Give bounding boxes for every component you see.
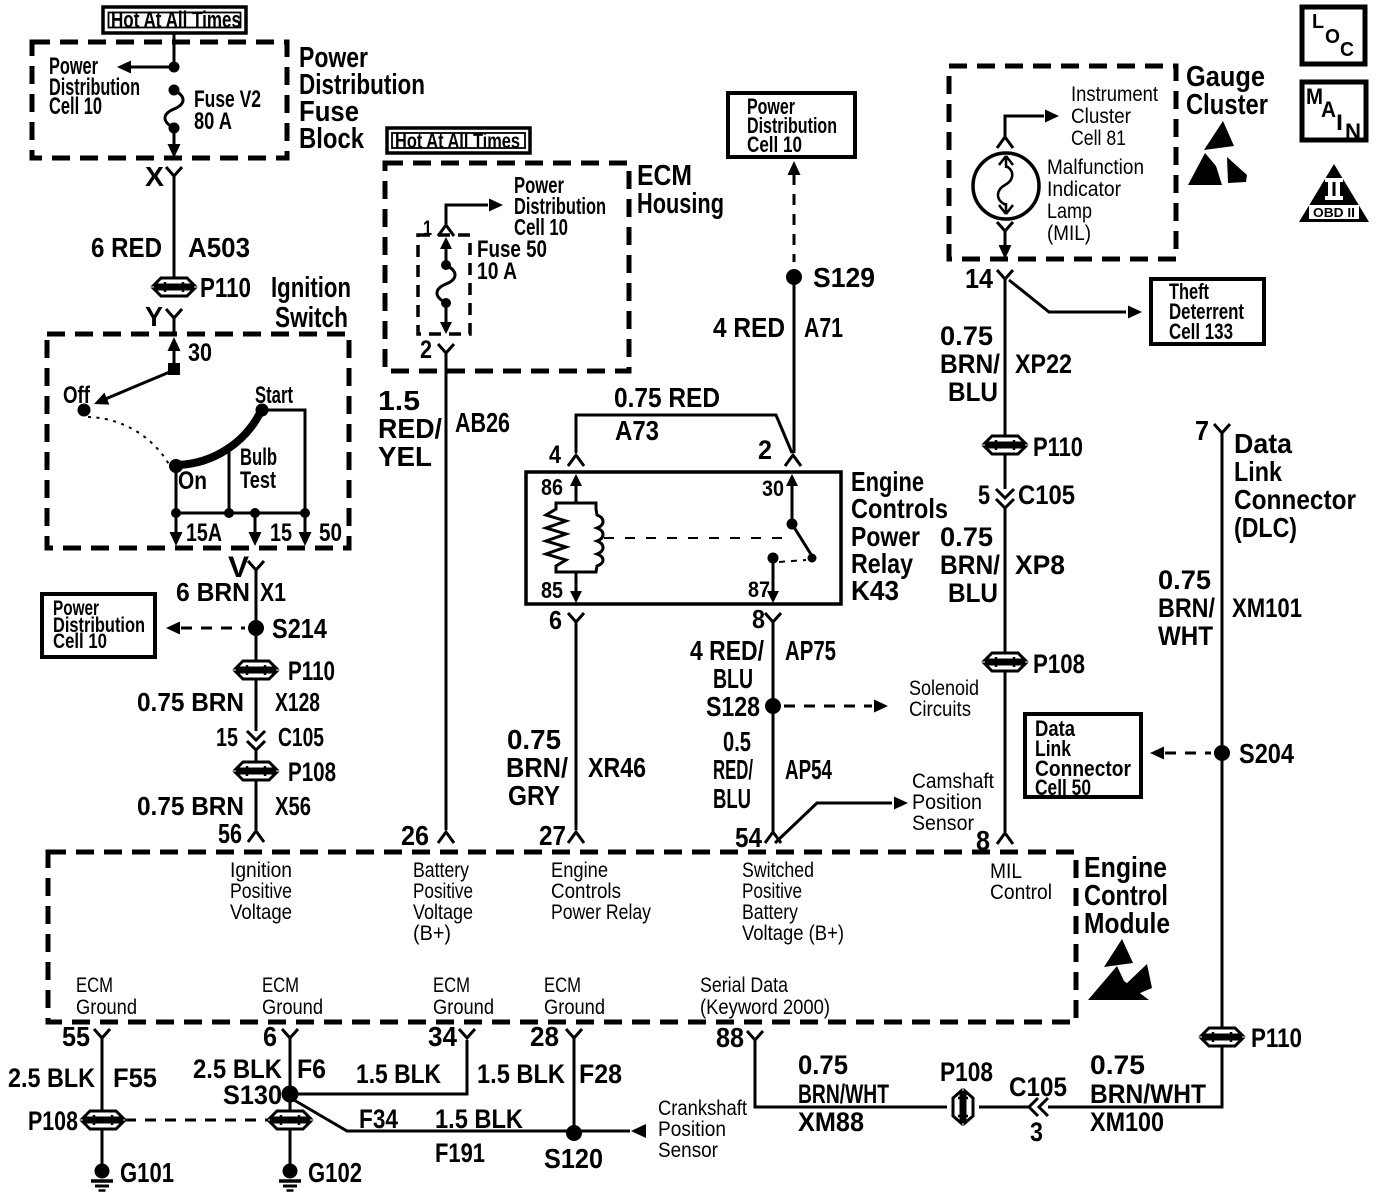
svg-text:BRN/WHT: BRN/WHT (1090, 1079, 1206, 1109)
svg-text:Ground: Ground (76, 996, 137, 1019)
svg-text:O: O (1325, 26, 1340, 48)
svg-text:XP8: XP8 (1015, 550, 1065, 580)
svg-text:Malfunction: Malfunction (1047, 156, 1144, 179)
svg-text:AP54: AP54 (785, 754, 832, 785)
node: contact 87 (768, 553, 779, 564)
wire: P110 to C105 (1004, 454, 1007, 489)
svg-text:Data: Data (1234, 428, 1292, 459)
Gauge Cluster dashed outline (949, 66, 1176, 259)
ECM Housing dashed outline (385, 163, 629, 371)
node: armature tip (808, 554, 817, 563)
svg-text:54: 54 (735, 822, 762, 853)
svg-text:Connector: Connector (1234, 484, 1356, 515)
connector P110 (X128) (236, 661, 276, 679)
svg-text:BRN/: BRN/ (506, 752, 568, 783)
svg-text:ECM: ECM (544, 974, 581, 997)
svg-text:55: 55 (62, 1021, 90, 1052)
label: pin 26 Battery Positive Voltage (B+) (413, 859, 473, 945)
connector P110 (serial data) (1202, 1028, 1242, 1046)
svg-text:6: 6 (549, 605, 562, 635)
wire 4 RED A71 (793, 270, 796, 453)
pin 7 connector (DLC) (1195, 415, 1230, 446)
pin 4 connector (relay) (549, 441, 584, 469)
fuse 50 dashed outline (418, 235, 470, 334)
svg-text:BLU: BLU (713, 663, 753, 694)
svg-text:(B+): (B+) (413, 922, 451, 945)
svg-text:Positive: Positive (413, 880, 473, 903)
label: 4 RED/BLU AP75 (690, 635, 836, 694)
svg-text:OBD II: OBD II (1313, 205, 1355, 220)
svg-text:Hot At All Times: Hot At All Times (395, 130, 520, 153)
svg-text:BRN/: BRN/ (1158, 593, 1215, 623)
wire 0.75 BRN/WHT XM88 (755, 1040, 947, 1107)
svg-text:50: 50 (319, 519, 342, 547)
label: 2.5 BLK F6 (193, 1054, 326, 1084)
wire: S214 to P110 (255, 636, 258, 661)
svg-text:C: C (1340, 39, 1354, 61)
label: Power Distribution Cell 10 (ECM housing) (514, 172, 606, 240)
svg-text:I: I (1336, 110, 1343, 135)
svg-text:L: L (1312, 11, 1324, 33)
splice S128 (765, 698, 781, 714)
svg-text:A71: A71 (804, 312, 843, 343)
label: 0.75 BRN/WHT XM100 (1090, 1050, 1206, 1137)
label: Data Link Connector (DLC) (1234, 428, 1356, 543)
pin Y connector (145, 301, 182, 334)
svg-text:Solenoid: Solenoid (909, 677, 979, 700)
LOC reference box (1302, 7, 1365, 64)
switch pivot (168, 363, 180, 375)
svg-text:S120: S120 (544, 1143, 603, 1174)
svg-text:XM100: XM100 (1090, 1107, 1164, 1137)
svg-text:6 BRN: 6 BRN (176, 577, 250, 607)
svg-text:Test: Test (240, 467, 276, 494)
dashed link P108 to G102 branch (125, 1119, 268, 1122)
svg-text:BRN/: BRN/ (940, 550, 1000, 580)
pin 26 connector (401, 820, 454, 851)
label: ECM Housing (637, 160, 724, 220)
svg-text:10 A: 10 A (477, 258, 517, 285)
pin 30 arrow (168, 337, 181, 364)
wire 2.5 BLK F6 (289, 1038, 292, 1087)
relay coil K43 (546, 503, 603, 572)
splice S120 (566, 1125, 582, 1141)
svg-text:4: 4 (549, 441, 561, 469)
pin 6 connector (relay) (549, 605, 584, 635)
label: 2.5 BLK F55 (8, 1063, 157, 1093)
label: 0.75 BRN/BLU XP8 (940, 522, 1065, 608)
svg-text:Voltage: Voltage (230, 901, 292, 924)
svg-text:RED/: RED/ (378, 413, 442, 444)
svg-text:Ignition: Ignition (230, 859, 292, 882)
svg-text:0.75: 0.75 (1090, 1050, 1145, 1080)
label box: Hot At All Times (fuse block) (103, 7, 246, 34)
svg-text:Cluster: Cluster (1186, 89, 1268, 121)
wire: fuse V2 to fuse block edge (173, 131, 176, 148)
svg-text:30: 30 (762, 476, 784, 501)
svg-text:Position: Position (912, 791, 982, 814)
svg-text:Indicator: Indicator (1047, 178, 1121, 201)
ESD symbol (gauge cluster) (1188, 121, 1247, 185)
Engine Controls Power Relay K43 outline (526, 472, 841, 604)
svg-text:6: 6 (263, 1021, 277, 1052)
node: Start position (256, 404, 269, 417)
label: 0.75 BRN/BLU XP22 (940, 321, 1072, 407)
node: relay armature pivot (787, 519, 798, 530)
svg-text:5: 5 (978, 480, 990, 510)
svg-text:K43: K43 (851, 575, 899, 606)
dashed tap to Power Distribution Cell 10 (166, 622, 245, 635)
label: 0.75 RED A73 (614, 382, 720, 446)
svg-text:6 RED: 6 RED (91, 232, 162, 263)
label: 0.5 RED/BLU AP54 (713, 726, 832, 814)
label: C105 3 (1009, 1072, 1067, 1147)
pin 88 connector (716, 1022, 763, 1053)
svg-text:Positive: Positive (742, 880, 802, 903)
dashed tap to Data Link Connector Cell 50 (1150, 747, 1211, 760)
svg-text:MIL: MIL (990, 860, 1022, 883)
svg-text:BLU: BLU (713, 783, 751, 814)
connector P108 (G101) (83, 1111, 123, 1129)
svg-text:P110: P110 (1251, 1023, 1302, 1053)
svg-text:P108: P108 (1033, 649, 1085, 679)
svg-text:80 A: 80 A (194, 108, 232, 135)
label: 6 BRN X1 (176, 577, 286, 607)
node: Off position (78, 404, 91, 417)
wire: connector to G102 (289, 1129, 292, 1164)
label box: Power Distribution Cell 10 (S129 feed) (728, 93, 855, 157)
svg-text:Serial Data: Serial Data (700, 974, 788, 997)
svg-text:S130: S130 (223, 1080, 282, 1110)
svg-text:1.5 BLK: 1.5 BLK (477, 1059, 565, 1089)
svg-text:WHT: WHT (1158, 621, 1213, 651)
label: 1.5 BLK F34 (356, 1059, 441, 1134)
svg-text:Cluster: Cluster (1071, 105, 1131, 128)
arrow to Power Distribution Cell 10 (117, 61, 131, 74)
Power Distribution Fuse Block dashed outline (32, 42, 287, 158)
svg-text:YEL: YEL (378, 441, 432, 472)
svg-text:P108: P108 (940, 1057, 993, 1087)
svg-text:Module: Module (1084, 908, 1170, 940)
svg-text:1.5: 1.5 (378, 385, 420, 416)
svg-text:Switch: Switch (275, 302, 348, 334)
dashed tap to solenoid circuits (784, 700, 888, 713)
svg-text:Camshaft: Camshaft (912, 770, 994, 793)
svg-text:28: 28 (530, 1021, 559, 1052)
label: Malfunction Indicator Lamp (MIL) (1047, 156, 1144, 245)
wire 1.5 RED/YEL AB26 (445, 353, 448, 830)
connector (G102 branch) (270, 1111, 310, 1129)
splice S129 (786, 269, 802, 285)
wire: C105 to P108 (979, 1106, 1029, 1109)
wire 0.75 BRN/BLU XP22 (1004, 279, 1007, 436)
label: ECM Ground (pin 6) (262, 974, 323, 1019)
splice S214 (248, 620, 264, 636)
terminal 15A arrow (170, 513, 183, 546)
wire: MIL to instrument cluster tap (1005, 116, 1044, 137)
node: bus junction bulb test (224, 508, 234, 518)
wire 0.75 BRN/WHT XM100 (1048, 1046, 1222, 1107)
svg-text:15A: 15A (186, 519, 222, 547)
svg-text:0.5: 0.5 (723, 726, 751, 757)
label: 1.5 BLK F28 (477, 1059, 622, 1089)
wire 4 RED/BLU AP75 (772, 622, 775, 831)
svg-text:ECM: ECM (76, 974, 113, 997)
connector P108 (serial data) (953, 1091, 973, 1123)
svg-text:A503: A503 (188, 232, 250, 263)
svg-text:S204: S204 (1239, 738, 1294, 769)
svg-text:XR46: XR46 (588, 752, 646, 783)
node: bus junction 15A (171, 508, 181, 518)
svg-text:C105: C105 (1018, 480, 1075, 510)
wire: bulb test branch (228, 444, 231, 513)
svg-text:Instrument: Instrument (1071, 83, 1158, 106)
pin 87 terminal arrow (767, 562, 779, 603)
label: 6 RED A503 (91, 232, 250, 263)
svg-text:Cell 81: Cell 81 (1071, 127, 1126, 150)
svg-text:BLU: BLU (948, 377, 998, 407)
wire 0.75 BRN X128 (255, 679, 258, 731)
label box: Data Link Connector Cell 50 (1025, 714, 1141, 800)
node: On position (169, 459, 183, 473)
pin 55 connector (62, 1021, 110, 1052)
svg-text:C105: C105 (278, 722, 324, 752)
label: pin 54 Switched Positive Battery Voltage (B+) (742, 859, 844, 945)
pin 30 terminal arrow (786, 474, 798, 522)
svg-text:Voltage (B+): Voltage (B+) (742, 922, 844, 945)
svg-text:8: 8 (752, 604, 765, 634)
svg-text:4 RED/: 4 RED/ (690, 635, 764, 666)
svg-text:26: 26 (401, 820, 429, 851)
label: Ignition Switch (271, 272, 351, 334)
MAIN reference box (1302, 82, 1366, 144)
svg-text:F55: F55 (113, 1063, 157, 1093)
svg-text:AP75: AP75 (785, 635, 836, 666)
pin 14 connector (965, 263, 1013, 294)
svg-text:XM101: XM101 (1232, 593, 1302, 623)
label: ECM Ground (pin 55) (76, 974, 137, 1019)
svg-text:Cell 10: Cell 10 (53, 630, 107, 653)
terminal 15 arrow (249, 513, 262, 546)
OBD II symbol (1299, 164, 1369, 222)
label: 1.5 RED/YEL AB26 (378, 385, 510, 472)
switch wiper arrow to Off (94, 371, 172, 405)
wire tap to theft deterrent (1009, 280, 1126, 312)
svg-text:2.5 BLK: 2.5 BLK (8, 1063, 95, 1093)
ground G101 (91, 1164, 113, 1191)
svg-text:0.75 BRN: 0.75 BRN (137, 791, 244, 821)
svg-text:Ground: Ground (544, 996, 605, 1019)
svg-text:Battery: Battery (413, 859, 469, 882)
svg-text:G102: G102 (308, 1157, 362, 1188)
svg-text:88: 88 (716, 1022, 744, 1053)
pin 85 terminal arrow (570, 572, 582, 603)
svg-text:P108: P108 (288, 757, 336, 787)
svg-text:30: 30 (188, 339, 212, 367)
svg-text:Cell 10: Cell 10 (747, 132, 802, 157)
label: Gauge Cluster (1186, 61, 1268, 121)
svg-text:GRY: GRY (508, 780, 560, 811)
arrow to Instrument Cluster Cell 81 (1045, 110, 1059, 123)
wire: P108 to pin 8 (1004, 671, 1007, 832)
svg-text:34: 34 (428, 1021, 457, 1052)
pin 8 connector (MIL control) (976, 825, 1013, 856)
svg-text:Ground: Ground (262, 996, 323, 1019)
wire 6 BRN X1 (255, 570, 258, 620)
svg-text:4 RED: 4 RED (713, 312, 785, 343)
svg-text:Cell 50: Cell 50 (1035, 775, 1091, 800)
label: 0.75 BRN/WHT XM101 (1158, 565, 1302, 651)
svg-text:0.75 BRN: 0.75 BRN (137, 687, 244, 717)
label box: Theft Deterrent Cell 133 (1151, 279, 1264, 344)
svg-text:Cell 10: Cell 10 (49, 93, 102, 120)
relay actuate dashed link (604, 537, 784, 539)
svg-text:Control: Control (990, 881, 1052, 904)
label: Engine Control Module (1084, 852, 1170, 940)
node: junction at fuse V2 top feed (169, 62, 180, 73)
wire 6 RED A503 (173, 176, 176, 278)
svg-text:Battery: Battery (742, 901, 798, 924)
label: Solenoid Circuits (909, 677, 979, 721)
wire tap to camshaft position sensor (775, 803, 892, 843)
connector P108 (X56) (236, 762, 276, 780)
svg-text:14: 14 (965, 263, 993, 294)
arrow to camshaft position sensor (894, 797, 908, 810)
svg-text:7: 7 (1195, 415, 1209, 446)
Engine Control Module dashed outline (48, 852, 1076, 1022)
svg-text:Housing: Housing (637, 188, 724, 220)
svg-text:2: 2 (758, 435, 772, 465)
svg-text:N: N (1345, 119, 1361, 144)
pin 34 connector (428, 1021, 475, 1052)
svg-text:G101: G101 (120, 1157, 174, 1188)
dashed armature throw (779, 560, 806, 562)
svg-text:Switched: Switched (742, 859, 814, 882)
svg-text:86: 86 (541, 474, 563, 500)
label box: Hot At All Times (ECM housing) (387, 128, 530, 153)
wire 2.5 BLK F55 (101, 1038, 104, 1111)
svg-text:S214: S214 (272, 613, 327, 644)
svg-text:Controls: Controls (551, 880, 621, 903)
pin 86 terminal arrow (570, 474, 582, 503)
label: Bulb Test (240, 444, 277, 494)
terminal 50 arrow (299, 513, 312, 546)
arrow to Power Distribution Cell 10 (ECM housing) (489, 199, 503, 212)
svg-text:XM88: XM88 (798, 1107, 864, 1137)
wire: Start to 50 branch (262, 410, 305, 513)
svg-text:S128: S128 (706, 691, 760, 722)
pin 2 connector (fuse 50) (420, 336, 454, 364)
svg-text:P110: P110 (1033, 432, 1083, 462)
pin 54 connector (735, 822, 781, 853)
svg-text:0.75: 0.75 (940, 522, 993, 552)
svg-text:0.75 RED: 0.75 RED (614, 382, 720, 413)
svg-text:F28: F28 (579, 1059, 622, 1089)
label: Power Distribution Cell 10 (fuse block) (49, 53, 140, 120)
label: ECM Ground (pin 28) (544, 974, 605, 1019)
svg-text:2: 2 (420, 336, 432, 364)
label: 5 C105 (978, 480, 1075, 510)
svg-text:X56: X56 (275, 791, 311, 821)
pin 56 connector (218, 818, 264, 849)
label: pin 27 Engine Controls Power Relay (551, 859, 651, 924)
wire: S204 down to P110 (1221, 761, 1224, 1028)
label: Engine Controls Power Relay K43 (851, 466, 948, 606)
svg-text:Position: Position (658, 1118, 726, 1141)
arrow to Theft Deterrent Cell 133 (1128, 306, 1142, 319)
svg-text:X128: X128 (275, 687, 320, 717)
svg-text:Cell 133: Cell 133 (1169, 319, 1233, 344)
svg-text:Block: Block (299, 123, 365, 155)
svg-text:0.75: 0.75 (1158, 565, 1211, 595)
label box: Power Distribution Cell 10 (S214 tap) (42, 594, 155, 657)
fuse V2 80A (165, 85, 183, 134)
connector C105 pin 3 (1029, 1098, 1048, 1116)
svg-text:BRN/WHT: BRN/WHT (798, 1079, 889, 1109)
wire: P108 to G101 (101, 1129, 104, 1164)
svg-text:87: 87 (748, 577, 770, 602)
arrow at gauge cluster bottom edge (999, 245, 1012, 259)
svg-text:AB26: AB26 (455, 407, 510, 438)
arrow from crankshaft position sensor (631, 1124, 646, 1138)
svg-text:RED/: RED/ (713, 754, 753, 785)
svg-text:P110: P110 (288, 656, 335, 686)
svg-text:Lamp: Lamp (1047, 200, 1092, 223)
ignition switch dashed outline (47, 334, 349, 548)
svg-text:Crankshaft: Crankshaft (658, 1097, 747, 1120)
svg-text:ECM: ECM (433, 974, 470, 997)
svg-text:3: 3 (1030, 1117, 1043, 1147)
relay armature (792, 524, 812, 556)
pin V connector (228, 551, 264, 584)
svg-text:On: On (178, 467, 207, 495)
svg-text:0.75: 0.75 (940, 321, 993, 351)
connector P110 (ignition feed) (154, 278, 194, 296)
svg-text:(MIL): (MIL) (1047, 222, 1091, 245)
label: ECM Ground (pin 34) (433, 974, 494, 1019)
wire: fuse 50 to Power Distribution Cell 10 tap (446, 205, 488, 224)
label: 0.75 BRN/GRY XR46 (506, 724, 646, 811)
svg-text:(DLC): (DLC) (1234, 512, 1297, 543)
fuse 50 10A (437, 237, 455, 334)
svg-text:27: 27 (539, 820, 566, 851)
pin 1 connector (fuse 50) (423, 217, 454, 240)
connector P110 (XP22) (985, 436, 1025, 454)
wire 1.5 BLK F34 (297, 1040, 467, 1094)
svg-text:S129: S129 (813, 262, 875, 293)
wire 0.75 BRN/GRY XR46 (575, 622, 578, 830)
arrow at fuse block bottom edge (168, 144, 181, 158)
wire: tap to Power Distribution Cell 10 (131, 66, 174, 69)
svg-text:P108: P108 (28, 1106, 78, 1136)
svg-text:Circuits: Circuits (909, 698, 971, 721)
connector P108 (XP8) (985, 653, 1025, 671)
pin 6 connector (ground) (263, 1021, 298, 1052)
connector C105 pin 15 (247, 731, 265, 750)
svg-text:Controls: Controls (851, 493, 948, 524)
wire 1.5 BLK F191 (294, 1100, 630, 1131)
label: Crankshaft Position Sensor (658, 1097, 747, 1162)
svg-text:Hot At All Times: Hot At All Times (111, 7, 241, 33)
label: Instrument Cluster Cell 81 (1071, 83, 1158, 150)
label: pin 56 Ignition Positive Voltage (230, 859, 292, 924)
svg-text:Engine: Engine (551, 859, 608, 882)
splice S130 (282, 1086, 299, 1103)
label: 4 RED A71 (713, 312, 843, 343)
node: bus junction 50 (300, 508, 310, 518)
svg-text:Y: Y (145, 301, 163, 332)
pin 2 connector (relay) (758, 435, 801, 466)
